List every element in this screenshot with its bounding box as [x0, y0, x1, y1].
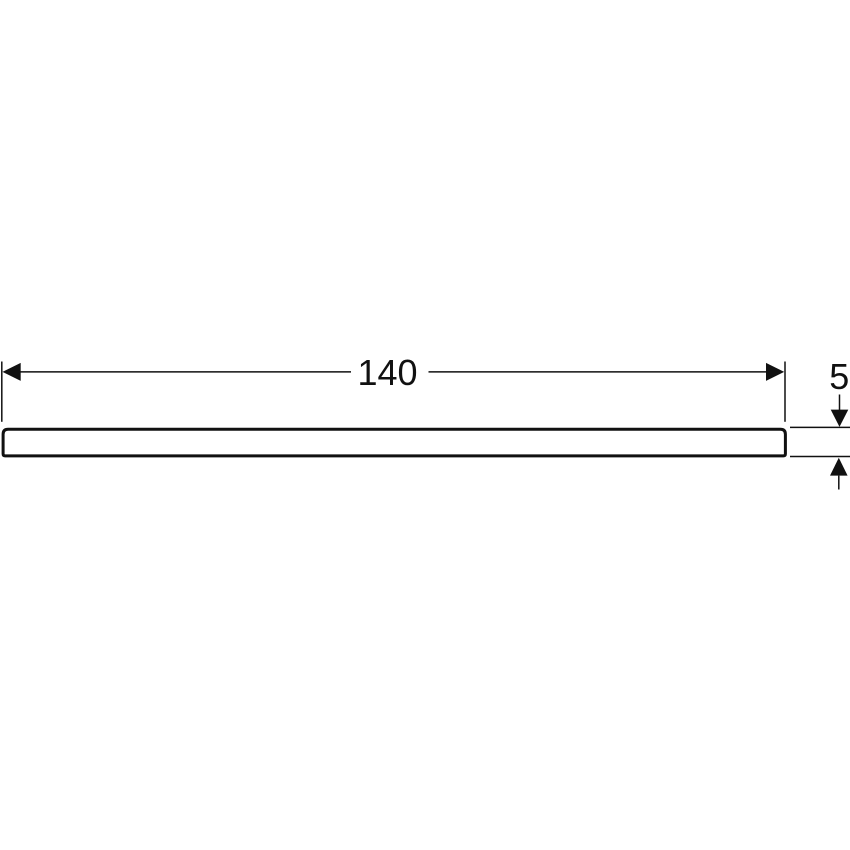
tick line top face	[790, 426, 850, 428]
leader line above down-arrow	[839, 395, 841, 413]
slab profile (product outline, side view)	[3, 429, 785, 456]
svg-text:5: 5	[829, 356, 849, 397]
extension line left	[1, 362, 3, 422]
arrowhead left (points left)	[3, 363, 21, 381]
arrowhead right (points right)	[766, 363, 784, 381]
dimension line 140, left segment	[18, 371, 351, 373]
leader line below up-arrow	[838, 476, 840, 490]
svg-text:140: 140	[357, 352, 417, 393]
tick line bottom face	[790, 456, 850, 458]
dimension line 140, right segment	[429, 371, 769, 373]
extension line right	[784, 362, 786, 422]
arrowhead up (points to bottom face)	[830, 458, 848, 476]
arrowhead down (points to top face)	[831, 410, 849, 427]
